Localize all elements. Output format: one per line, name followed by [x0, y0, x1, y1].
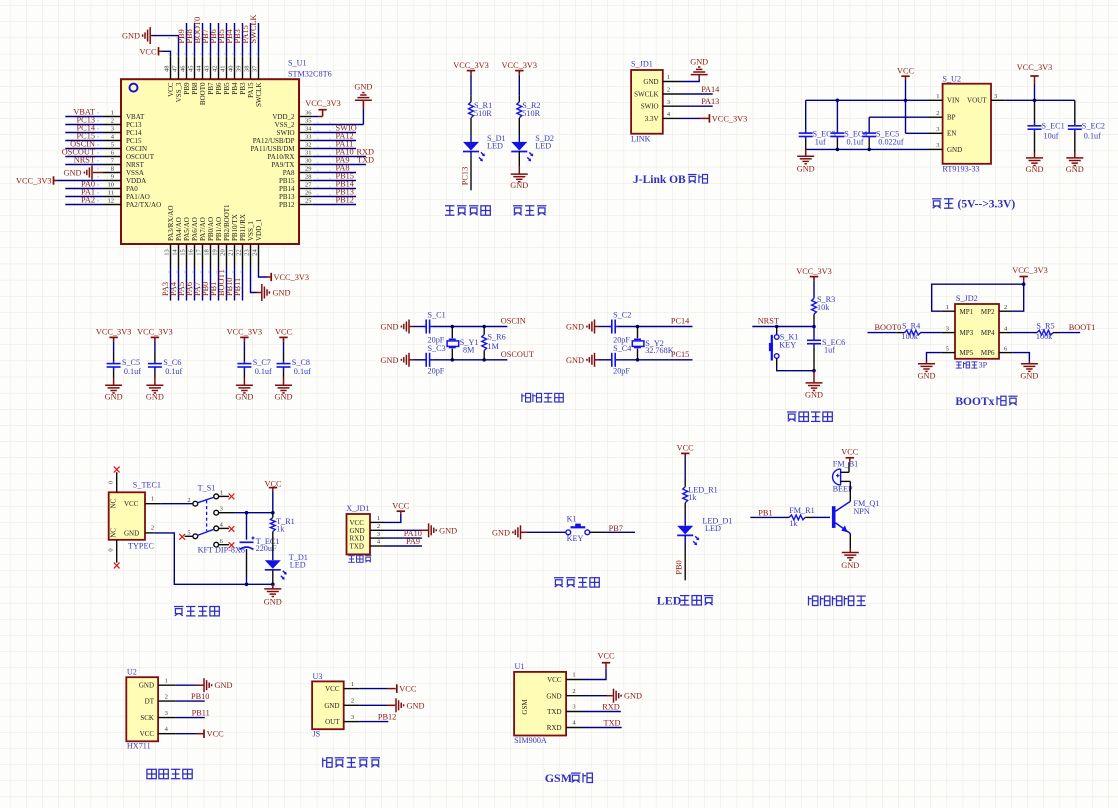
LED T_D1: [265, 552, 308, 580]
svg-text:VCC_3V3: VCC_3V3: [796, 267, 832, 276]
svg-text:0.1uf: 0.1uf: [294, 367, 311, 376]
IC S_U1 STM32C8T6 body: [121, 59, 332, 245]
svg-text:J-Link OB: J-Link OB: [633, 174, 686, 186]
svg-text:S_EC1: S_EC1: [1042, 122, 1065, 131]
title GSM模块: [545, 771, 593, 785]
svg-text:X_JD1: X_JD1: [346, 504, 369, 513]
svg-text:PB1/AO: PB1/AO: [215, 217, 223, 241]
svg-text:TXD: TXD: [604, 718, 621, 727]
svg-text:2: 2: [165, 693, 168, 700]
svg-text:VOUT: VOUT: [967, 97, 987, 105]
svg-text:PA3/RX/AO: PA3/RX/AO: [167, 205, 175, 241]
svg-text:S_EC2: S_EC2: [1082, 122, 1105, 131]
svg-text:1: 1: [111, 110, 114, 117]
svg-text:GND: GND: [918, 371, 936, 380]
power VCC (X_JD1 pin 1): [370, 501, 410, 522]
svg-text:VCC: VCC: [124, 500, 139, 508]
svg-text:GND: GND: [264, 598, 282, 607]
svg-text:1k: 1k: [688, 493, 697, 502]
svg-text:10k: 10k: [817, 303, 830, 312]
svg-text:VBAT: VBAT: [126, 113, 145, 121]
svg-text:1: 1: [377, 515, 380, 522]
svg-text:PB9: PB9: [183, 82, 191, 95]
wire pin 14 net PA4: [169, 244, 179, 301]
svg-text:31: 31: [305, 150, 312, 157]
svg-text:SWIO: SWIO: [277, 129, 295, 137]
svg-text:20: 20: [220, 249, 227, 256]
svg-text:VCC: VCC: [167, 82, 175, 97]
svg-text:3: 3: [165, 710, 168, 717]
svg-text:5: 5: [111, 142, 114, 149]
ground (HX711 pin 1): [158, 678, 232, 692]
svg-text:PB14: PB14: [279, 185, 295, 193]
svg-text:PB0/AO: PB0/AO: [207, 217, 215, 241]
svg-text:DT: DT: [145, 698, 155, 706]
svg-text:PA11/USB/DM: PA11/USB/DM: [251, 145, 296, 153]
svg-text:S_C2: S_C2: [613, 310, 631, 319]
svg-text:46: 46: [180, 65, 187, 72]
svg-text:28: 28: [305, 174, 312, 181]
svg-text:VCC: VCC: [325, 685, 340, 693]
svg-text:PB11: PB11: [233, 278, 242, 296]
wire pin 33 net PA12: [299, 132, 356, 141]
svg-text:3P: 3P: [979, 361, 988, 370]
crystal S_Y1 8M: [447, 327, 478, 360]
svg-text:43: 43: [204, 66, 211, 73]
svg-text:S_JD2: S_JD2: [956, 294, 978, 303]
svg-text:PB10/TX: PB10/TX: [231, 214, 239, 241]
svg-text:U3: U3: [313, 672, 323, 681]
svg-text:MP6: MP6: [981, 349, 995, 357]
power VCC_3V3 output: [1017, 63, 1053, 102]
capacitor S_EC3 1uf: [799, 100, 836, 149]
title 复位电路: [787, 412, 832, 421]
svg-text:OSCOUT: OSCOUT: [501, 350, 534, 359]
svg-text:2: 2: [111, 118, 114, 125]
svg-text:PA15: PA15: [247, 82, 255, 98]
wire pin 16 net PA6: [185, 244, 195, 301]
svg-text:PA2/TX/AO: PA2/TX/AO: [126, 201, 161, 209]
svg-text:LED: LED: [535, 142, 551, 151]
svg-text:PA14: PA14: [701, 85, 720, 94]
svg-text:VCC_3V3: VCC_3V3: [274, 273, 310, 282]
svg-text:S_R5: S_R5: [1036, 321, 1054, 330]
svg-text:27: 27: [305, 182, 312, 189]
no-connect switch pin 4: [219, 526, 235, 532]
svg-text:S_C4: S_C4: [613, 344, 631, 353]
ground (pin 5): [918, 353, 955, 381]
svg-text:S_U2: S_U2: [942, 74, 961, 83]
wire net NRST: [752, 316, 816, 328]
title 可编程灯: [445, 206, 490, 215]
IC U2 HX711 body: [126, 668, 168, 751]
svg-text:10uf: 10uf: [1044, 132, 1059, 141]
svg-text:S_JD1: S_JD1: [631, 60, 653, 69]
svg-text:EN: EN: [947, 130, 956, 138]
svg-text:1uf: 1uf: [824, 346, 835, 355]
svg-text:38: 38: [244, 66, 251, 73]
wire EN: [906, 132, 943, 134]
power VCC (HX711 pin 4): [158, 729, 224, 738]
svg-text:GND: GND: [354, 83, 372, 92]
svg-text:0: 0: [107, 481, 114, 484]
svg-text:RXD: RXD: [547, 724, 562, 732]
svg-text:VCC: VCC: [841, 448, 859, 457]
svg-text:VDDA: VDDA: [126, 177, 146, 185]
power VCC (U3 pin 1): [344, 684, 417, 693]
svg-text:1: 1: [351, 681, 354, 688]
svg-text:11: 11: [108, 190, 114, 197]
svg-text:32.768K: 32.768K: [645, 346, 674, 355]
ground (S_C4): [566, 353, 610, 367]
capacitor S_C7 0.1uf: [237, 353, 272, 378]
svg-text:PC15: PC15: [671, 350, 689, 359]
ground (key): [492, 525, 566, 539]
svg-text:GND: GND: [324, 702, 339, 710]
svg-text:0.1uf: 0.1uf: [847, 138, 864, 147]
wire net BOOT1: [1060, 323, 1095, 332]
wire pin 39 net PB3: [233, 23, 243, 79]
wire net RXD (GSM pin 3 TXD): [566, 702, 621, 711]
ground (S_C5): [105, 378, 123, 402]
svg-text:0: 0: [107, 548, 114, 551]
resistor T_R1 1k: [270, 513, 294, 552]
ground (X_JD1 pin 2): [370, 523, 457, 537]
svg-text:GND: GND: [235, 392, 253, 401]
svg-text:SWCLK: SWCLK: [255, 83, 263, 108]
wire pin 31 net PA10: [299, 148, 374, 157]
svg-text:5: 5: [187, 529, 190, 536]
svg-text:35: 35: [305, 118, 312, 125]
svg-text:VCC: VCC: [350, 519, 365, 527]
power VCC pin 48: [139, 47, 170, 79]
capacitor S_EC4 0.1uf: [830, 100, 867, 149]
capacitor S_C5 0.1uf: [107, 353, 142, 378]
power VCC_3V3 (BOOT jumper): [932, 266, 1048, 311]
pushbutton S_K1 KEY: [769, 327, 799, 361]
svg-text:SWCLK: SWCLK: [249, 14, 258, 43]
svg-text:U2: U2: [127, 668, 137, 677]
svg-text:PC13: PC13: [461, 167, 470, 185]
wire pin 2 net PC13: [65, 116, 121, 125]
svg-text:GND: GND: [566, 323, 584, 332]
wire pin 43 net PB7: [201, 23, 211, 79]
svg-text:PA0: PA0: [126, 185, 138, 193]
svg-text:VDD_2: VDD_2: [272, 113, 295, 121]
svg-text:GND: GND: [624, 692, 642, 701]
svg-text:LINK: LINK: [631, 135, 651, 144]
svg-text:3: 3: [946, 325, 949, 332]
wire VOUT rail: [991, 99, 1075, 101]
svg-text:48: 48: [164, 66, 171, 73]
svg-text:16: 16: [188, 249, 195, 256]
wire net PB11 (pin 3 SCK): [158, 709, 210, 718]
svg-text:3: 3: [377, 531, 380, 538]
resistor S_R2 510R: [517, 95, 541, 134]
svg-text:25: 25: [305, 198, 312, 205]
svg-text:S_U1: S_U1: [288, 59, 307, 68]
svg-text:3: 3: [936, 142, 939, 149]
svg-text:2: 2: [187, 497, 190, 504]
wire pin 15 net PA5: [177, 244, 187, 301]
wire pin 28 net PB15: [299, 172, 356, 181]
svg-text:1uf: 1uf: [815, 138, 826, 147]
wire pin 5 net OSCIN: [65, 140, 121, 149]
svg-text:MP1: MP1: [960, 308, 974, 316]
svg-text:OSCIN: OSCIN: [126, 145, 147, 153]
power VCC_3V3 pin 9 VDDA: [16, 176, 121, 185]
svg-text:GND: GND: [643, 78, 658, 86]
power VCC (S_C8): [275, 328, 293, 353]
svg-text:PB12: PB12: [279, 201, 295, 209]
wire pin 12 net PA2: [65, 196, 121, 205]
wire net PB7: [590, 524, 635, 533]
svg-text:JS: JS: [313, 730, 321, 739]
svg-text:VCC: VCC: [547, 676, 562, 684]
svg-text:GND: GND: [797, 165, 815, 174]
capacitor S_C2 20pF: [609, 310, 631, 344]
resistor S_R3 10k: [812, 295, 836, 326]
svg-text:8: 8: [111, 166, 114, 173]
wire net PB12 (U3 pin 3): [344, 712, 397, 721]
svg-text:30: 30: [305, 158, 312, 165]
svg-text:15: 15: [180, 249, 187, 256]
svg-text:S_C3: S_C3: [428, 344, 446, 353]
svg-text:PB0: PB0: [675, 560, 684, 574]
wire pin 1 net VBAT: [65, 108, 121, 117]
svg-text:VCC: VCC: [677, 444, 695, 453]
resistor FM_R1 1k: [786, 506, 830, 528]
ground (input caps): [797, 149, 815, 173]
connector S_JD1 LINK body: [631, 60, 671, 144]
wire pin 11 net PA1: [65, 188, 121, 197]
svg-text:2: 2: [1004, 304, 1007, 311]
ground (S_EC1): [1026, 153, 1044, 175]
svg-text:12: 12: [108, 198, 115, 205]
svg-text:3: 3: [220, 506, 223, 513]
svg-text:VDD_1: VDD_1: [255, 218, 263, 241]
ground (GSM pin 2): [566, 689, 642, 703]
svg-text:TXD: TXD: [357, 156, 374, 165]
svg-text:PB12: PB12: [378, 712, 396, 721]
svg-text:SIM900A: SIM900A: [514, 736, 547, 745]
svg-text:5: 5: [946, 345, 949, 352]
connector S_TEC1 TYPEC body: [109, 481, 161, 551]
svg-text:GND: GND: [124, 529, 139, 537]
svg-text:PB11/RX: PB11/RX: [239, 214, 247, 241]
svg-text:VCC: VCC: [392, 501, 410, 510]
wire pin 18 net PB0: [201, 244, 211, 301]
ground (power circuit): [264, 570, 282, 606]
capacitor S_C8 0.1uf: [277, 353, 312, 378]
wire net PC14: [618, 317, 693, 329]
svg-text:TXD: TXD: [547, 708, 561, 716]
svg-text:VCC_3V3: VCC_3V3: [1017, 63, 1053, 72]
svg-text:1M: 1M: [488, 342, 500, 351]
ground (emitter): [841, 534, 859, 571]
svg-text:3: 3: [667, 99, 670, 106]
svg-text:S_TEC1: S_TEC1: [133, 481, 161, 490]
wire TYPEC VCC to switch: [145, 503, 193, 505]
svg-text:0.1uf: 0.1uf: [255, 367, 272, 376]
svg-text:GND: GND: [1020, 371, 1038, 380]
svg-text:GND: GND: [215, 681, 233, 690]
wire net OSCOUT: [432, 350, 534, 362]
wire net BOOT0: [868, 323, 902, 332]
sensor U3 JS body: [312, 672, 354, 739]
svg-text:PC14: PC14: [126, 129, 142, 137]
module U1 SIM900A body: [514, 662, 576, 745]
svg-text:GND: GND: [122, 32, 140, 41]
power VCC_3V3 (S_C7): [227, 328, 263, 353]
svg-text:0.1uf: 0.1uf: [165, 367, 182, 376]
no-connect switch pin 5: [179, 534, 193, 540]
svg-text:14: 14: [172, 249, 179, 256]
wire pin 4 net PC15: [65, 132, 121, 141]
svg-text:1: 1: [151, 495, 154, 502]
svg-text:GND: GND: [805, 390, 823, 399]
title 称重模块: [147, 769, 192, 778]
svg-text:GND: GND: [139, 682, 154, 690]
svg-text:1: 1: [936, 93, 939, 100]
svg-text:PB6: PB6: [215, 82, 223, 95]
svg-text:3: 3: [994, 93, 997, 100]
svg-text:VCC_3V3: VCC_3V3: [712, 114, 748, 123]
wire pin 6 net OSCOUT: [62, 148, 121, 157]
power VCC (buzzer): [841, 448, 859, 473]
svg-text:26: 26: [305, 190, 312, 197]
svg-text:PB8: PB8: [191, 82, 199, 95]
svg-text:9: 9: [111, 174, 114, 181]
svg-text:VSS_2: VSS_2: [275, 121, 295, 129]
capacitor S_EC5 0.022uf: [862, 129, 904, 149]
svg-text:VCC: VCC: [275, 328, 293, 337]
capacitor S_EC1 10uf: [1028, 100, 1065, 152]
wire net PA14 (pin 2 SWCLK): [663, 85, 720, 94]
wire pin 21 net PB10: [225, 244, 235, 301]
svg-text:GND: GND: [381, 323, 399, 332]
svg-text:GND: GND: [690, 57, 708, 66]
ground pin 47 VSS_3: [122, 27, 178, 79]
svg-text:U1: U1: [515, 662, 525, 671]
svg-text:100k: 100k: [1036, 332, 1053, 341]
capacitor S_EC2 0.1uf: [1068, 100, 1105, 152]
svg-text:BOOT0: BOOT0: [199, 82, 207, 105]
svg-text:1k: 1k: [789, 519, 798, 528]
power VCC_3V3 (S_C6): [137, 328, 173, 353]
svg-text:41: 41: [220, 66, 227, 73]
svg-text:GND: GND: [273, 288, 291, 297]
title 蜂鸣器电路: [809, 596, 866, 605]
svg-text:VCC_3V3: VCC_3V3: [502, 61, 538, 70]
no-connect pin 0 bottom: [107, 540, 119, 569]
wire net OSCIN: [432, 317, 526, 329]
svg-text:3: 3: [936, 126, 939, 133]
svg-text:GND: GND: [510, 181, 528, 190]
capacitor S_C4 20pF: [609, 344, 631, 375]
svg-text:VSSA: VSSA: [126, 169, 144, 177]
svg-text:3: 3: [351, 714, 354, 721]
power VCC_3V3 (pin 4 3.3V): [663, 114, 748, 123]
svg-text:VCC_3V3: VCC_3V3: [16, 177, 52, 186]
wire pin 20 net BOOT1: [217, 244, 227, 301]
connector X_JD1 下载口 body: [346, 504, 381, 562]
svg-text:0.022uf: 0.022uf: [878, 138, 904, 147]
svg-text:GSM: GSM: [545, 771, 572, 785]
svg-text:S_R6: S_R6: [488, 333, 506, 342]
resistor S_R6 1M: [482, 327, 506, 360]
wire pin 37 net SWCLK: [249, 14, 259, 79]
svg-text:OSCIN: OSCIN: [501, 317, 526, 326]
svg-text:1: 1: [572, 672, 575, 679]
svg-text:VIN: VIN: [947, 97, 959, 105]
wire net PB0: [675, 535, 686, 580]
svg-text:PA10/RX: PA10/RX: [268, 153, 295, 161]
svg-text:RXD: RXD: [350, 535, 365, 543]
wire net TXD (GSM pin 4 RXD): [566, 718, 622, 727]
svg-text:PA6/AO: PA6/AO: [191, 217, 199, 241]
svg-text:GSM: GSM: [521, 699, 529, 715]
power VCC_3V3 pin 24 VDD_1: [259, 244, 310, 282]
svg-text:PA5/AO: PA5/AO: [183, 217, 191, 241]
svg-text:GND: GND: [439, 526, 457, 535]
wire net PB1: [750, 508, 786, 517]
svg-text:18: 18: [204, 249, 211, 256]
svg-text:KEY: KEY: [779, 341, 796, 350]
svg-text:PB7: PB7: [207, 82, 215, 95]
svg-text:GND: GND: [546, 692, 561, 700]
svg-text:T_S1: T_S1: [198, 484, 216, 493]
LED S_D1: [463, 134, 506, 161]
transistor FM_Q1 NPN: [832, 481, 879, 533]
svg-text:SWCLK: SWCLK: [634, 90, 659, 98]
svg-text:17: 17: [196, 249, 203, 256]
svg-text:MP3: MP3: [960, 329, 974, 337]
wire pin 7 net NRST: [65, 156, 121, 165]
svg-text:220uF: 220uF: [256, 544, 277, 553]
wire net PB10 (pin 2 DT): [158, 692, 209, 701]
svg-text:(5V-->3.3V): (5V-->3.3V): [958, 199, 1016, 211]
svg-text:VSS_3: VSS_3: [175, 82, 183, 102]
svg-text:NPN: NPN: [853, 507, 869, 516]
svg-text:GND: GND: [566, 356, 584, 365]
svg-text:NRST: NRST: [758, 316, 779, 325]
wire VIN rail: [806, 99, 943, 103]
svg-text:0.1uf: 0.1uf: [124, 367, 141, 376]
no-connect switch pin 6: [219, 542, 235, 548]
svg-text:PA8: PA8: [283, 169, 295, 177]
svg-text:TXD: TXD: [350, 543, 364, 551]
svg-text:GND: GND: [350, 527, 365, 535]
svg-text:VCC: VCC: [897, 66, 915, 75]
svg-text:PA13: PA13: [701, 97, 719, 106]
voltage regulator S_U2 RT9193-33 body: [936, 74, 997, 173]
ground (S_C1): [381, 320, 425, 334]
svg-text:32: 32: [305, 142, 312, 149]
ground (S_D2 cathode): [510, 151, 528, 190]
title BOOTx设置: [955, 396, 1017, 408]
wire pin 45 net PB8: [185, 23, 195, 79]
svg-text:LED: LED: [487, 142, 503, 151]
wire pin 32 net PA11: [299, 140, 356, 149]
svg-text:20pF: 20pF: [613, 366, 630, 375]
svg-text:1: 1: [667, 74, 670, 81]
svg-text:3.3V: 3.3V: [645, 115, 659, 123]
svg-text:VCC: VCC: [139, 47, 157, 56]
svg-text:510R: 510R: [474, 109, 492, 118]
svg-text:PB7: PB7: [609, 524, 623, 533]
wire pin 44 net BOOT0: [193, 17, 203, 79]
